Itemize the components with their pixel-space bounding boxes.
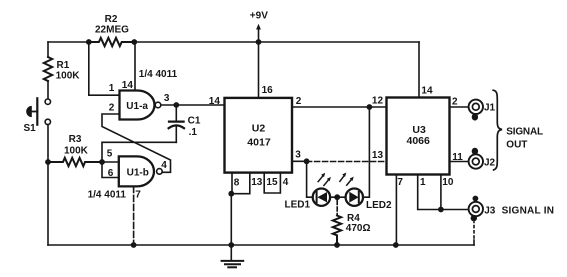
wire pin1 drop xyxy=(89,42,120,95)
svg-text:1/4 4011: 1/4 4011 xyxy=(88,190,127,201)
wire U2 pin2 to U3 pin12 xyxy=(292,106,387,108)
brace signal out xyxy=(493,90,502,170)
wire to J3 xyxy=(441,209,469,211)
svg-text:LED1: LED1 xyxy=(285,200,311,211)
svg-text:J1: J1 xyxy=(484,103,496,114)
wire U3 pin1 xyxy=(418,175,441,210)
wire U2 pin3 stub xyxy=(292,160,307,162)
ground xyxy=(222,245,244,267)
svg-text:12: 12 xyxy=(372,96,384,107)
power +9V xyxy=(250,11,268,42)
wire pin3 node to LED1 xyxy=(307,161,313,197)
svg-text:U1-b: U1-b xyxy=(127,167,149,178)
wire top rail right segment xyxy=(134,41,419,43)
node pin2 junction xyxy=(367,104,373,110)
node R4 rail junction xyxy=(334,242,340,248)
jack J1 xyxy=(469,100,496,121)
wire pin2 feedback xyxy=(102,114,171,172)
capacitor C1 xyxy=(169,105,201,142)
label SIGNAL OUT xyxy=(506,126,543,150)
svg-text:LED2: LED2 xyxy=(366,200,392,211)
wire pin3 output xyxy=(161,104,225,106)
svg-text:R1: R1 xyxy=(57,60,70,71)
svg-text:.1: .1 xyxy=(189,127,198,138)
svg-text:2: 2 xyxy=(109,103,115,114)
node pin10 junction xyxy=(438,207,444,213)
wire pin14 drop U3 xyxy=(418,42,420,98)
svg-text:14: 14 xyxy=(209,96,221,107)
svg-text:J2: J2 xyxy=(484,157,496,168)
svg-text:1: 1 xyxy=(420,177,426,188)
node ground rail junction xyxy=(228,242,234,248)
node R2 left junction xyxy=(86,39,92,45)
wire bottom rail xyxy=(48,244,474,246)
jack J3 xyxy=(469,196,496,222)
node A gate input junction xyxy=(99,159,105,165)
svg-text:1/4 4011: 1/4 4011 xyxy=(139,69,178,80)
svg-text:3: 3 xyxy=(164,93,170,104)
svg-text:13: 13 xyxy=(251,177,263,188)
svg-text:SIGNAL IN: SIGNAL IN xyxy=(502,205,555,216)
svg-text:470Ω: 470Ω xyxy=(346,223,371,234)
wire top rail left segment xyxy=(48,41,89,43)
node R2 right junction xyxy=(131,39,137,45)
wire C1 to gate inputs xyxy=(102,142,176,162)
svg-text:2: 2 xyxy=(452,96,458,107)
wire R1 to S1 xyxy=(47,81,49,99)
node R3 left junction xyxy=(45,159,51,165)
jack J2 xyxy=(469,148,496,169)
node pin3 U2 junction xyxy=(304,158,310,164)
wire left branch top xyxy=(47,42,49,57)
svg-text:J3: J3 xyxy=(484,205,496,216)
resistor R4 xyxy=(333,201,371,246)
wire pin6 input xyxy=(102,162,119,178)
svg-text:4: 4 xyxy=(161,160,167,171)
wire U2 pin15 pin4 tab xyxy=(264,173,280,193)
svg-text:4: 4 xyxy=(283,177,289,188)
svg-text:4066: 4066 xyxy=(407,135,431,147)
IC U2 4017 xyxy=(209,85,302,189)
svg-text:8: 8 xyxy=(234,178,240,189)
wire pin7 ground drop xyxy=(133,186,135,245)
wire pin5 input xyxy=(102,161,119,163)
svg-text:1: 1 xyxy=(109,83,115,94)
svg-text:U2: U2 xyxy=(252,122,266,134)
LED1 xyxy=(285,173,331,211)
wire pin2 node to LED2 xyxy=(363,107,369,197)
node pin3 junction xyxy=(173,102,179,108)
svg-text:+9V: +9V xyxy=(250,11,268,22)
svg-text:100K: 100K xyxy=(56,71,81,82)
node +9V junction xyxy=(256,39,262,45)
svg-text:14: 14 xyxy=(122,80,134,91)
svg-text:S1: S1 xyxy=(24,123,37,134)
svg-text:13: 13 xyxy=(372,150,384,161)
label SIGNAL IN xyxy=(502,205,555,216)
resistor R2 xyxy=(89,14,135,46)
node LED junction xyxy=(334,194,340,200)
svg-text:C1: C1 xyxy=(188,115,201,126)
wire LED1 to LED2 xyxy=(330,196,346,198)
svg-text:7: 7 xyxy=(397,177,403,188)
svg-text:100K: 100K xyxy=(64,146,89,157)
svg-text:22MEG: 22MEG xyxy=(95,25,129,36)
op-amp U1-a nand gate xyxy=(109,69,178,120)
wire pin16 supply xyxy=(258,42,260,98)
svg-text:2: 2 xyxy=(296,96,302,107)
IC U3 4066 xyxy=(372,86,463,188)
wire U3 pin10 xyxy=(440,175,442,210)
wire pin8 to ground rail xyxy=(230,194,232,245)
node pin8 junction xyxy=(228,191,234,197)
wire U3 pin7 ground xyxy=(395,175,397,246)
svg-text:SIGNAL: SIGNAL xyxy=(506,126,543,137)
LED2 xyxy=(340,173,392,212)
svg-text:R3: R3 xyxy=(69,134,82,145)
resistor R1 xyxy=(44,57,80,82)
wire S1 to bottom rail xyxy=(47,125,49,245)
svg-text:7: 7 xyxy=(135,189,141,200)
op-amp U1-b nand gate xyxy=(88,149,168,201)
node U3 pin7 rail junction xyxy=(393,242,399,248)
svg-text:5: 5 xyxy=(107,149,113,160)
svg-text:3: 3 xyxy=(295,150,301,161)
svg-text:15: 15 xyxy=(266,177,278,188)
wire pin3 to U3 pin13 xyxy=(307,161,387,163)
svg-text:R2: R2 xyxy=(105,14,118,25)
svg-text:4017: 4017 xyxy=(247,136,271,148)
wire U3 pin2 to J1 xyxy=(450,106,469,108)
switch S1 xyxy=(24,98,51,134)
svg-text:OUT: OUT xyxy=(506,139,527,150)
svg-text:16: 16 xyxy=(262,85,274,96)
wire U3 pin11 to J2 xyxy=(450,161,469,163)
resistor R3 xyxy=(48,134,102,166)
wire J3 sleeve ground xyxy=(473,222,475,245)
wire pin14 drop U1 xyxy=(134,42,136,91)
node pin7 rail junction xyxy=(131,242,137,248)
svg-text:10: 10 xyxy=(442,177,454,188)
svg-text:14: 14 xyxy=(421,86,433,97)
svg-text:U1-a: U1-a xyxy=(126,101,148,112)
wire U2 pin8 pin13 tab xyxy=(231,173,250,194)
